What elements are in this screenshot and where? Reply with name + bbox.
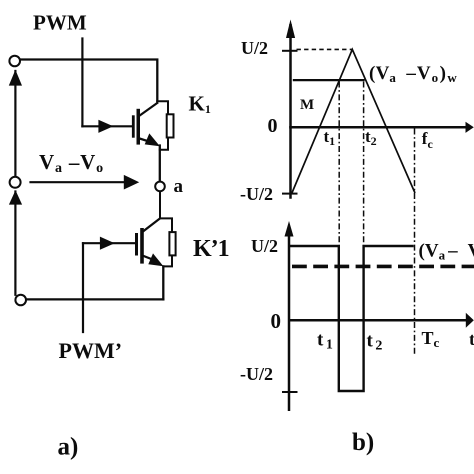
- svg-text:K’1: K’1: [193, 236, 229, 262]
- svg-text:Va –Vo: Va –Vo: [39, 150, 104, 176]
- svg-text:PWM: PWM: [33, 11, 87, 35]
- svg-text:b): b): [352, 429, 374, 456]
- svg-text:(Va–Vo)w: (Va–Vo)w: [369, 63, 457, 85]
- svg-text:-U/2: -U/2: [240, 364, 273, 384]
- svg-text:a): a): [58, 434, 79, 461]
- svg-text:0: 0: [268, 115, 278, 137]
- svg-text:-U/2: -U/2: [240, 184, 273, 204]
- svg-text:PWM’: PWM’: [59, 338, 123, 363]
- svg-text:t: t: [469, 329, 474, 349]
- svg-text:0: 0: [271, 309, 282, 333]
- svg-text:M: M: [300, 97, 314, 113]
- svg-text:a: a: [174, 176, 184, 197]
- svg-text:U/2: U/2: [241, 38, 268, 58]
- svg-text:U/2: U/2: [251, 236, 278, 256]
